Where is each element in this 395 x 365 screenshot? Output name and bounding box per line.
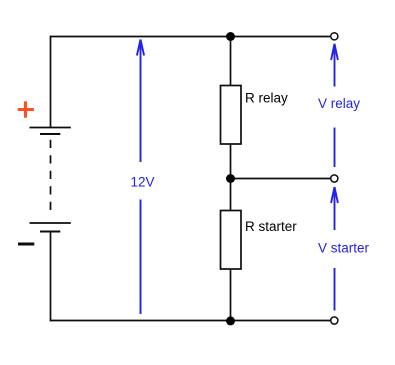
open terminal middle — [331, 175, 338, 182]
open terminal top — [331, 33, 338, 40]
open terminal bottom — [331, 317, 338, 324]
svg-text:R starter: R starter — [245, 219, 297, 234]
wire middle horizontal to terminal — [231, 178, 331, 180]
arrow V starter — [331, 187, 338, 311]
wire left vertical battery minus lead — [50, 232, 52, 322]
resistor R starter — [221, 211, 242, 270]
wire top node to R relay — [230, 36, 232, 86]
battery bottom cell short plate — [40, 231, 60, 233]
svg-text:V starter: V starter — [318, 241, 370, 256]
battery bottom cell long plate — [30, 222, 71, 224]
wire top horizontal — [50, 36, 330, 38]
battery top cell long plate — [30, 127, 71, 129]
svg-text:12V: 12V — [131, 175, 155, 190]
junction node middle — [226, 174, 235, 183]
wire R relay to middle node — [230, 144, 232, 211]
plus sign of battery — [18, 101, 34, 117]
battery dashed middle link — [50, 140, 52, 211]
arrow 12V battery voltage — [137, 40, 144, 315]
wire bottom horizontal — [50, 320, 330, 322]
battery top cell short plate — [40, 133, 60, 135]
junction node bottom — [226, 316, 235, 325]
wire left vertical battery plus lead — [50, 36, 52, 128]
minus sign of battery — [18, 243, 34, 246]
junction node top — [226, 32, 235, 41]
resistor R relay — [221, 86, 242, 145]
svg-text:R relay: R relay — [245, 91, 288, 106]
svg-text:V relay: V relay — [318, 96, 360, 111]
arrow V relay — [331, 44, 338, 167]
wire R starter to bottom node — [230, 269, 232, 321]
